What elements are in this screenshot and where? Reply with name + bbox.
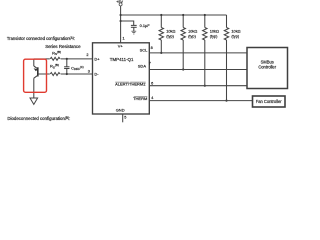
resistor RS bottom	[50, 72, 61, 77]
wire V+ supply vertical	[120, 6, 122, 43]
svg-text:5: 5	[124, 116, 126, 120]
wire SCL	[149, 52, 247, 54]
node cap branch junction	[120, 20, 122, 22]
resistor RS top	[50, 56, 61, 61]
svg-text:(typ): (typ)	[166, 33, 174, 38]
svg-text:(typ): (typ)	[188, 33, 196, 38]
wire top rail	[121, 14, 227, 16]
box Fan Controller	[253, 96, 286, 107]
wire THERM	[149, 100, 252, 102]
svg-text:1: 1	[123, 36, 125, 40]
svg-text:0.1µF: 0.1µF	[140, 23, 151, 28]
svg-text:Diodeconnected configuration(B: Diodeconnected configuration(B):	[7, 116, 70, 121]
red highlight box	[24, 59, 47, 92]
svg-text:SDA: SDA	[138, 64, 147, 69]
resistor R2 10k pullup	[181, 15, 185, 70]
svg-text:2: 2	[86, 53, 88, 57]
svg-text:GND: GND	[116, 107, 125, 112]
wire D- line	[38, 73, 93, 75]
svg-text:Series Resistance: Series Resistance	[45, 44, 81, 49]
node rail junction	[120, 14, 122, 16]
svg-text:(typ): (typ)	[231, 33, 239, 38]
svg-text:D-: D-	[94, 72, 99, 77]
node CDIFF top junction	[66, 58, 68, 60]
svg-text:Fan Controller: Fan Controller	[256, 99, 283, 104]
resistor R3 10k pullup	[203, 15, 207, 86]
resistor R1 10k pullup	[159, 15, 163, 53]
svg-text:4: 4	[151, 96, 153, 100]
op chip TMP411-Q1	[93, 43, 150, 114]
wire SDA	[149, 69, 247, 71]
svg-text:3: 3	[88, 69, 90, 73]
svg-text:TMP411-Q1: TMP411-Q1	[110, 57, 134, 62]
svg-text:SCL: SCL	[140, 47, 149, 52]
svg-text:6: 6	[151, 81, 153, 85]
wire cap branch	[121, 21, 134, 25]
svg-text:V+: V+	[118, 43, 124, 48]
resistor R4 10k pullup	[224, 15, 228, 101]
svg-text:Transistor connected configura: Transistor connected configuration(A):	[7, 36, 75, 41]
node CDIFF bottom junction	[66, 73, 68, 75]
wire ALERT/THERM2	[149, 85, 247, 87]
box SMBus Controller	[247, 48, 288, 89]
svg-text:8: 8	[151, 46, 153, 50]
svg-text:Controller: Controller	[258, 65, 276, 70]
wire GND pin stub	[122, 114, 124, 122]
svg-text:+5V: +5V	[116, 0, 123, 4]
capacitor C 0.1uF	[131, 25, 137, 31]
wire D+ line	[34, 58, 93, 60]
capacitor CDIFF	[64, 59, 69, 74]
ground symbol	[131, 31, 136, 34]
supply terminal +5V	[119, 3, 122, 6]
ground arrow (to GND)	[30, 98, 38, 104]
svg-text:D+: D+	[94, 57, 100, 62]
svg-text:7: 7	[149, 62, 151, 66]
svg-text:(typ): (typ)	[210, 33, 218, 38]
transistor Q1 (remote PNP sensor)	[34, 59, 38, 98]
